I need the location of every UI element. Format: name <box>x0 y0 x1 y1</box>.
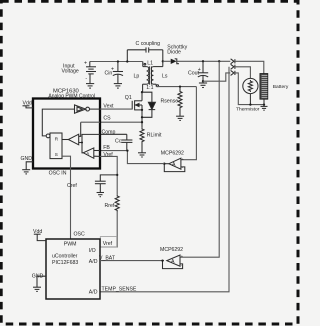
wire Vref pin to reference filter <box>100 156 117 195</box>
connector pin 1 (battery +) <box>231 59 235 64</box>
wire connector1 to battery top <box>235 61 264 73</box>
wire secondary bottom to Rsense <box>156 86 196 88</box>
wire op-amp out to FB <box>100 151 164 164</box>
svg-text:+: + <box>111 66 114 72</box>
svg-text:Battery: Battery <box>273 84 289 90</box>
wire diode to output rail <box>177 60 231 62</box>
IC U1 MCP1630 box <box>33 99 100 169</box>
GND (MCP1630) <box>22 162 33 174</box>
wire S to OSC IN <box>62 156 71 239</box>
ground (Cout) <box>199 81 207 87</box>
svg-text:Thermistor: Thermistor <box>236 107 260 113</box>
svg-text:-: - <box>85 76 87 82</box>
svg-text:Rref: Rref <box>105 203 115 209</box>
IC U3 PIC12F683 box <box>46 239 100 299</box>
node Ls top / coupling <box>162 60 164 62</box>
svg-text:RLimit: RLimit <box>147 132 162 138</box>
svg-text:+: + <box>84 61 87 67</box>
wire Vext to gate <box>100 108 132 110</box>
diode (body diode across Q1) <box>142 92 155 117</box>
resistor Rsense <box>178 87 182 116</box>
svg-text:Voltage: Voltage <box>62 69 79 75</box>
svg-text:A/D: A/D <box>89 259 98 265</box>
node Cout bottom <box>202 80 204 82</box>
Vdd (PIC) <box>34 234 46 240</box>
ground (Rsense) <box>176 116 184 120</box>
svg-text:L1: L1 <box>147 61 153 67</box>
svg-text:Comp: Comp <box>102 129 116 135</box>
Vdd (MCP1630) <box>23 106 34 108</box>
svg-text:Vdd: Vdd <box>23 101 32 107</box>
wire CS <box>100 121 142 123</box>
Schottky diode D1 <box>171 58 179 64</box>
error amp (U1 internal) <box>82 134 100 158</box>
svg-text:uController: uController <box>52 254 78 260</box>
connector pin 3 (battery -) <box>231 70 235 75</box>
capacitor Cin <box>113 62 123 84</box>
net label box Vref <box>100 237 116 247</box>
ground (battery) <box>261 105 268 111</box>
wire primary bottom node <box>141 91 143 93</box>
ground (input source) <box>86 84 94 89</box>
svg-text:CS: CS <box>103 116 111 122</box>
svg-text:OSC IN: OSC IN <box>49 170 67 176</box>
svg-text:Lp: Lp <box>134 73 140 79</box>
transformer L1 (coupled inductor Lp:Ls 1:1) <box>143 61 163 92</box>
capacitor Cc <box>100 134 132 150</box>
wire node to diode <box>163 60 171 62</box>
svg-text:1:1: 1:1 <box>146 85 153 91</box>
resistor RLimit <box>140 128 144 153</box>
svg-text:+: + <box>198 67 201 73</box>
ground (Cref) <box>97 193 104 197</box>
svg-text:Cref: Cref <box>67 183 77 189</box>
svg-text:Vdd: Vdd <box>33 229 42 235</box>
ground (RLimit) <box>138 153 146 157</box>
wire V_BAT <box>100 260 164 262</box>
comparator (U1 internal) <box>62 122 82 145</box>
battery B1 <box>260 74 268 105</box>
svg-text:Vref: Vref <box>103 241 113 247</box>
driver U1 output stage <box>42 105 100 136</box>
wire temp sense down <box>100 67 229 292</box>
svg-text:A: A <box>172 162 176 168</box>
svg-text:FB: FB <box>103 145 110 151</box>
GND (PIC) <box>33 276 46 291</box>
wire battery sense down <box>180 61 219 257</box>
op-amp U2B MCP6292 (battery voltage buffer) <box>163 255 183 269</box>
svg-text:Cc: Cc <box>115 138 122 144</box>
connector pin 2 (temp sense) <box>231 64 235 69</box>
svg-text:C coupling: C coupling <box>136 41 161 47</box>
wire connector2 to thermistor top <box>235 67 251 79</box>
svg-text:A/D: A/D <box>89 290 98 296</box>
op-amp U2A MCP6292 (current buffer) <box>164 158 185 171</box>
node Cin tap <box>117 60 119 62</box>
resistor Rref <box>115 195 119 212</box>
node C coupling tap <box>126 60 128 62</box>
svg-text:Analog PWM Control: Analog PWM Control <box>48 94 95 100</box>
input voltage source V1 <box>86 62 96 84</box>
node Cout tap <box>202 60 204 62</box>
flip-flop (SR latch) <box>46 133 62 159</box>
svg-text:TEMP_SENSE: TEMP_SENSE <box>102 287 137 293</box>
wire Rsense node to op-amp + <box>181 87 197 160</box>
capacitor Cref <box>95 175 117 192</box>
wire connector3 to battery bottom rail <box>235 73 264 105</box>
thermistor RT1 <box>243 78 258 104</box>
svg-text:PIC12F683: PIC12F683 <box>52 260 78 266</box>
node vbat sense tap <box>218 60 220 62</box>
node battery bottom <box>263 103 265 105</box>
svg-text:Ls: Ls <box>162 73 168 79</box>
svg-text:I/O: I/O <box>89 248 96 254</box>
wire main input rail <box>90 61 143 63</box>
capacitor Cout <box>198 61 208 81</box>
svg-text:Q1: Q1 <box>125 95 132 101</box>
svg-text:Rsense: Rsense <box>161 99 179 105</box>
transistor Q1 (N-MOSFET) <box>132 92 142 128</box>
svg-text:OSC: OSC <box>74 231 85 237</box>
svg-text:MCP6292: MCP6292 <box>161 151 184 157</box>
svg-text:A: A <box>86 151 89 156</box>
ground (Cin) <box>114 84 122 89</box>
wire ground return to connector 3 <box>203 73 230 81</box>
svg-text:V_BAT: V_BAT <box>99 256 116 262</box>
svg-text:S: S <box>55 152 58 157</box>
svg-text:GND: GND <box>32 274 44 280</box>
wire Rref to PIC I/O (Vref net) <box>100 212 117 248</box>
svg-text:PWM: PWM <box>64 241 77 247</box>
svg-text:MCP6292: MCP6292 <box>160 247 183 253</box>
svg-text:A: A <box>171 259 175 265</box>
wire CS internal <box>81 121 100 123</box>
capacitor C coupling <box>127 47 163 61</box>
svg-text:GND: GND <box>21 156 33 162</box>
node thermistor bottom <box>249 103 251 105</box>
svg-text:Diode: Diode <box>167 49 181 55</box>
